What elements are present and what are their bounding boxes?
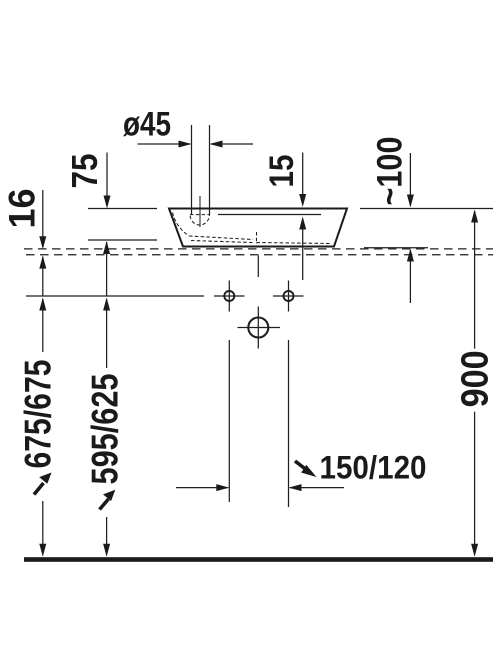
faucet holes axis extension line [26,295,204,297]
bowl bottom dashed lower line [191,241,253,243]
dia45 left extension line [191,125,193,215]
rim right extension line [360,208,493,210]
svg-text:~100: ~100 [371,137,410,206]
svg-text:595/625: 595/625 [85,374,126,485]
right faucet hole crosshair [273,281,304,312]
svg-text:900: 900 [455,350,496,407]
svg-text:ø45: ø45 [123,106,171,144]
dia45 right extension line [209,125,211,215]
counter upper dashed line [24,248,493,250]
left faucet hole crosshair [214,281,245,312]
right faucet hole circle [284,291,294,301]
150/120 left extension line [228,340,230,502]
bowl bottom dashed right continuation [257,243,332,244]
floor line [24,557,493,562]
595/625 upper stem [106,299,108,368]
150/120 dimension line left segment [176,487,228,489]
arrowhead dia45 left [210,141,223,148]
15 dimension upper stem [302,153,304,205]
arrowhead ~100 down [407,195,414,208]
drain hole crosshair [238,307,281,349]
75 lower stem to holes axis [106,242,108,296]
leader arrow 595/625 [100,490,116,510]
arrowhead 150/120 left [289,484,302,491]
arrowhead ~100 up [407,249,414,262]
arrowhead 595 up at axis [103,298,110,311]
basin inner rim line (15 reference) [218,214,321,216]
arrowhead 900 down [471,544,478,557]
16 lower stem to holes axis [42,257,44,297]
arrowhead 15 up [299,217,306,230]
900 dimension line lower segment [474,412,476,554]
drain vertical centerline [199,196,201,227]
counter surface solid segment [364,247,428,249]
basin outline [169,209,347,247]
~100 dimension upper stem [409,153,411,206]
150/120 right extension line [288,340,290,507]
arrowhead 150/120 right [216,484,229,491]
16 dimension upper stem [42,190,44,247]
drain hole circle below counter [248,318,268,338]
svg-text:675/675: 675/675 [18,360,59,469]
centerline above drain hole [257,256,259,278]
left faucet hole circle [224,291,234,301]
rim left extension line [88,208,157,210]
svg-text:75: 75 [64,154,105,189]
bowl bottom left extension line (75 lower ref) [88,239,157,241]
arrowhead 595 down at floor [103,544,110,557]
bowl bottom dashed upper line [189,236,253,240]
150/120 dimension line right segment [290,487,344,489]
900 dimension line upper segment [474,211,476,349]
75 dimension upper line [106,153,108,207]
bowl inner dashed contour [173,213,190,237]
arrowhead 675 up at axis [39,298,46,311]
595/625 lower segment [106,517,108,554]
drain dashed outline [190,215,210,225]
svg-text:150/120: 150/120 [320,450,427,486]
arrowhead dia45 right [179,141,192,148]
675/675 lower segment [42,501,44,554]
svg-text:15: 15 [263,155,301,188]
arrowhead 75 up (outside below line) [103,241,110,254]
dia45 dimension line right segment [211,143,253,145]
arrowhead 16 down [39,236,46,249]
arrowhead 75 down [104,196,111,209]
svg-text:16: 16 [2,189,43,229]
arrowhead 675 down at floor [39,544,46,557]
drain trap dashed vertical [256,232,258,244]
leader arrow 150/120 [295,461,317,477]
arrowhead 15 down [299,194,306,207]
15 dimension lower stem [302,219,304,280]
arrowhead 900 up [471,210,478,223]
~100 lower stem [409,250,411,303]
leader arrow 675/675 [34,473,52,495]
675/675 upper stem [42,299,44,352]
counter lower dashed line [26,254,493,256]
arrowhead 16 up [39,256,46,269]
dia45 dimension line left segment [138,143,191,145]
